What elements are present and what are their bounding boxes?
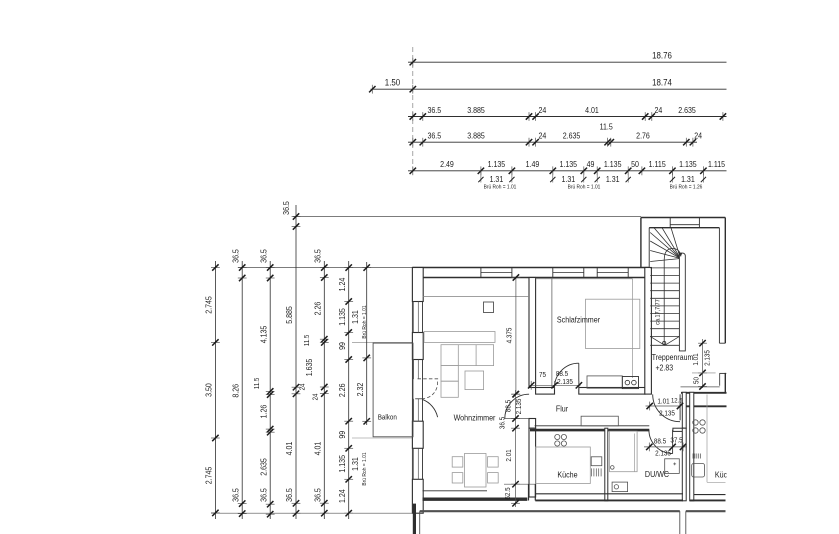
svg-text:1.31: 1.31 (681, 174, 695, 184)
svg-text:2.745: 2.745 (204, 467, 214, 485)
Schlafzimmer door arc (555, 363, 579, 387)
chain D 36.5/5.885/24/4.01/36.5 (295, 205, 297, 519)
top wall outer/inner (412, 267, 649, 269)
second apartment shaft/party walls (682, 392, 686, 428)
svg-text:4.01: 4.01 (585, 105, 599, 115)
svg-text:24: 24 (312, 393, 319, 400)
svg-text:1.24: 1.24 (337, 278, 347, 292)
svg-text:36.5: 36.5 (313, 488, 323, 502)
svg-text:1.135: 1.135 (488, 160, 506, 170)
right outer wall (724, 218, 726, 344)
svg-text:36.5: 36.5 (259, 249, 269, 263)
svg-text:1.50: 1.50 (385, 77, 401, 88)
kitchen counter (536, 447, 591, 484)
svg-text:36.5: 36.5 (428, 131, 442, 141)
extension ticks to left wall (352, 341, 413, 343)
dim row 3 (408, 116, 727, 118)
left wall glazing (413, 302, 415, 333)
thin lines Schlafzimmer (551, 278, 553, 388)
chain A 2.745/3.50/2.745 (214, 261, 216, 519)
dim right wall opening (702, 339, 704, 388)
furniture (424, 299, 726, 491)
dim row 4 (408, 141, 697, 143)
Flur south wall / Kueche north wall (535, 425, 650, 427)
right wall below opening (724, 373, 726, 392)
svg-text:24: 24 (694, 131, 702, 141)
sink unit (591, 457, 602, 466)
coffee table (465, 371, 484, 390)
svg-text:DU/WC: DU/WC (645, 469, 669, 479)
svg-text:2.26: 2.26 (337, 383, 347, 397)
wall Wohnzimmer/Flur with door opening (529, 419, 536, 429)
svg-text:2.26: 2.26 (313, 302, 323, 316)
bottom walls (423, 490, 488, 492)
svg-text:Balkon: Balkon (378, 414, 397, 422)
shower (610, 431, 638, 472)
svg-text:1.31: 1.31 (606, 174, 620, 184)
svg-text:Brü Roh = 1.01: Brü Roh = 1.01 (362, 452, 368, 485)
left wall faces (411, 268, 413, 514)
door Wohnzimmer-Flur arc (505, 394, 529, 418)
column below window 1 (484, 302, 494, 313)
cased opening Flur-Kueche (581, 416, 618, 426)
dim row 5 windows (408, 170, 727, 172)
wall south-east of Treppenraum (681, 386, 720, 388)
svg-text:36.5: 36.5 (285, 488, 295, 502)
balcony (373, 343, 413, 437)
svg-text:Brü Roh = 1.26: Brü Roh = 1.26 (670, 184, 703, 190)
svg-text:1.31: 1.31 (490, 174, 504, 184)
svg-text:36.5: 36.5 (281, 201, 291, 215)
svg-text:99: 99 (337, 431, 347, 439)
stair block window (669, 218, 671, 228)
balcony door arc (422, 399, 437, 417)
svg-text:ca.17,7/77: ca.17,7/77 (655, 299, 661, 324)
svg-text:1.135: 1.135 (560, 160, 578, 170)
Treppenraum door leaf (679, 394, 681, 420)
chain G 2.32 (366, 262, 368, 425)
DU/WC north wall right part (673, 428, 684, 431)
svg-text:Flur: Flur (556, 404, 569, 414)
svg-text:+2.83: +2.83 (655, 363, 673, 373)
dining table (465, 454, 487, 488)
svg-text:Brü Roh = 1.01: Brü Roh = 1.01 (568, 184, 601, 190)
svg-text:24: 24 (539, 105, 547, 115)
svg-text:2.635: 2.635 (563, 131, 581, 141)
svg-text:1.01: 1.01 (657, 398, 670, 405)
svg-text:2.745: 2.745 (204, 296, 214, 314)
balcony door dashed lintel (418, 378, 439, 380)
svg-text:36.5: 36.5 (231, 488, 241, 502)
chain B 36.5/8.26/36.5 (241, 261, 243, 519)
svg-text:1.49: 1.49 (526, 160, 540, 170)
svg-text:1.26: 1.26 (259, 405, 269, 419)
svg-text:2.635: 2.635 (678, 105, 696, 115)
svg-text:Treppenraum: Treppenraum (652, 352, 694, 362)
washbasin (665, 459, 680, 474)
stair cut box (650, 335, 679, 337)
treads (650, 267, 679, 269)
spine wall (679, 253, 685, 351)
floor plan (373, 218, 726, 534)
extension line stair block top (293, 216, 641, 218)
svg-text:2.135: 2.135 (655, 450, 671, 457)
svg-text:1.635: 1.635 (305, 359, 315, 377)
svg-text:24: 24 (539, 131, 547, 141)
hob circles (555, 434, 560, 439)
svg-text:24: 24 (655, 105, 663, 115)
svg-text:1.31: 1.31 (561, 174, 575, 184)
svg-text:2.135: 2.135 (659, 410, 675, 417)
walk line (664, 249, 681, 345)
dim Schlafzimmer door (529, 384, 581, 386)
dim row 18.76 (408, 61, 727, 63)
svg-text:50: 50 (631, 160, 639, 170)
Treppenraum door arc (653, 394, 680, 421)
chain C (269, 261, 271, 519)
svg-text:1.31: 1.31 (350, 457, 360, 471)
wall Wohnzimmer/Kueche (529, 428, 536, 497)
svg-text:2.32: 2.32 (355, 383, 365, 397)
svg-text:Brü Roh = 1.01: Brü Roh = 1.01 (484, 184, 517, 190)
svg-text:3.885: 3.885 (467, 131, 485, 141)
winder rays (650, 233, 680, 259)
DUWC east wall (682, 428, 686, 501)
svg-text:36.5: 36.5 (231, 249, 241, 263)
dim row 1.50 / 18.74 (371, 88, 727, 90)
svg-text:36.5: 36.5 (499, 417, 506, 430)
svg-text:1.135: 1.135 (604, 160, 622, 170)
svg-text:3.50: 3.50 (204, 383, 214, 397)
chain F windows left wall (348, 261, 350, 519)
svg-text:2.76: 2.76 (636, 131, 650, 141)
svg-text:8.26: 8.26 (231, 384, 241, 398)
chairs (452, 457, 463, 467)
sideboard Schlafzimmer (587, 376, 622, 388)
extension line bottom wall (211, 512, 416, 514)
terrace walls (420, 510, 680, 512)
chain E (323, 261, 325, 519)
sideboard Wohnzimmer (424, 332, 495, 343)
top dimension block (369, 47, 726, 191)
svg-text:18.76: 18.76 (652, 50, 672, 61)
WC (612, 482, 628, 492)
wall Kueche/DUWC (605, 428, 608, 501)
svg-text:Schlafzimmer: Schlafzimmer (557, 315, 601, 325)
dim 4.375 vertical (515, 278, 517, 395)
appliance box with circles (622, 377, 638, 389)
svg-text:24: 24 (299, 383, 306, 390)
svg-text:1.135: 1.135 (337, 455, 347, 473)
svg-text:2.135: 2.135 (516, 398, 523, 414)
svg-text:49: 49 (587, 160, 595, 170)
svg-text:1.01: 1.01 (693, 353, 700, 366)
svg-text:Wohnzimmer: Wohnzimmer (454, 413, 496, 423)
Daechschraege line Wohnzimmer (423, 296, 530, 298)
svg-text:11.5: 11.5 (600, 122, 613, 132)
svg-text:4.01: 4.01 (313, 442, 323, 456)
svg-text:36.5: 36.5 (313, 249, 323, 263)
svg-text:11.5: 11.5 (303, 334, 310, 346)
svg-text:11.5: 11.5 (254, 377, 261, 389)
stair block top wall (641, 217, 725, 219)
Flur north wall / Schlafzimmer south wall (536, 388, 555, 395)
svg-text:36.5: 36.5 (428, 105, 442, 115)
sub dims 1.31 (480, 171, 482, 183)
left dimension chains (204, 201, 641, 519)
svg-text:4.375: 4.375 (506, 327, 513, 343)
svg-text:2.135: 2.135 (704, 350, 711, 366)
svg-text:36.5: 36.5 (259, 488, 269, 502)
svg-text:Küche: Küche (557, 470, 577, 480)
interior dims (499, 274, 716, 507)
partition Wohnzimmer/Schlafzimmer (529, 278, 536, 388)
dim DU/WC door (644, 446, 687, 448)
dim Wohn-Flur door vertical (515, 390, 517, 507)
svg-text:Küc: Küc (715, 470, 727, 480)
balcony door dashed arc (422, 382, 437, 399)
svg-text:1.24: 1.24 (337, 489, 347, 503)
svg-text:4.135: 4.135 (259, 326, 269, 344)
staircase (650, 228, 685, 351)
left wall piers (412, 268, 423, 302)
svg-text:12.5: 12.5 (671, 397, 683, 404)
svg-text:50: 50 (693, 377, 700, 384)
svg-text:2.01: 2.01 (506, 449, 513, 462)
svg-text:99: 99 (337, 342, 347, 350)
svg-text:62.5: 62.5 (505, 487, 512, 500)
sofa (441, 345, 494, 366)
svg-text:88.5: 88.5 (556, 371, 569, 378)
dim Treppenraum door (646, 405, 682, 407)
svg-text:1.115: 1.115 (708, 160, 725, 170)
svg-text:4.01: 4.01 (285, 442, 295, 456)
svg-text:88.5: 88.5 (654, 438, 667, 445)
svg-text:37.5: 37.5 (670, 437, 683, 444)
svg-text:1.135: 1.135 (337, 308, 347, 326)
svg-text:1.135: 1.135 (679, 160, 697, 170)
svg-text:2.635: 2.635 (259, 458, 269, 476)
left wall below (413, 504, 416, 534)
svg-text:5.885: 5.885 (284, 306, 294, 324)
opening in right wall (719, 342, 725, 344)
second kitchen (692, 395, 726, 483)
svg-text:88.5: 88.5 (505, 400, 512, 413)
svg-text:3.885: 3.885 (467, 105, 485, 115)
svg-text:1.115: 1.115 (649, 160, 666, 170)
svg-text:18.74: 18.74 (652, 77, 672, 88)
svg-text:75: 75 (539, 372, 546, 379)
svg-text:2.135: 2.135 (557, 379, 573, 386)
svg-text:2.49: 2.49 (440, 160, 454, 170)
Treppenraum west wall (645, 268, 652, 395)
svg-text:1.31: 1.31 (350, 310, 360, 324)
bed (586, 299, 640, 348)
extension line building left edge (412, 47, 414, 174)
window mid lines top wall (481, 272, 512, 274)
extension line main top wall (238, 267, 413, 269)
DU/WC door arc (649, 430, 673, 454)
